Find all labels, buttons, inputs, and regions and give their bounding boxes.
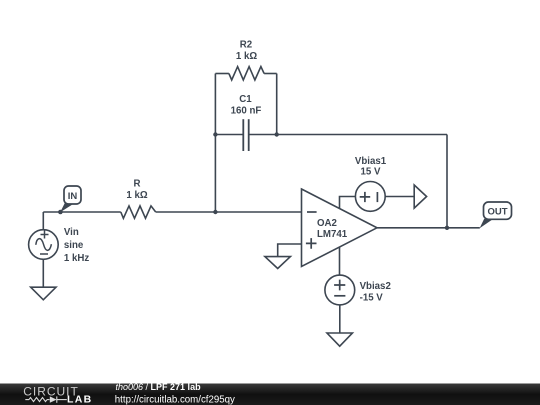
svg-text:Vbias2: Vbias2 <box>360 281 391 292</box>
svg-text:15 V: 15 V <box>361 166 381 177</box>
svg-text:R2: R2 <box>240 40 252 51</box>
svg-text:tho006 / LPF 271 lab: tho006 / LPF 271 lab <box>116 382 202 392</box>
svg-text:C1: C1 <box>239 94 252 105</box>
svg-text:OA2: OA2 <box>317 218 337 229</box>
svg-text:1 kΩ: 1 kΩ <box>236 51 257 62</box>
svg-text:OUT: OUT <box>487 206 507 217</box>
svg-text:1 kHz: 1 kHz <box>64 253 89 264</box>
svg-text:http://circuitlab.com/cf295qy: http://circuitlab.com/cf295qy <box>115 394 235 405</box>
svg-text:IN: IN <box>68 191 78 202</box>
svg-text:LM741: LM741 <box>317 229 348 240</box>
svg-text:LAB: LAB <box>67 394 92 405</box>
svg-text:160 nF: 160 nF <box>231 106 262 117</box>
svg-text:R: R <box>134 179 141 190</box>
svg-text:-15 V: -15 V <box>360 292 384 303</box>
svg-text:Vin: Vin <box>64 227 79 238</box>
svg-text:1 kΩ: 1 kΩ <box>126 190 147 201</box>
svg-text:Vbias1: Vbias1 <box>355 156 387 167</box>
svg-text:sine: sine <box>64 240 84 251</box>
